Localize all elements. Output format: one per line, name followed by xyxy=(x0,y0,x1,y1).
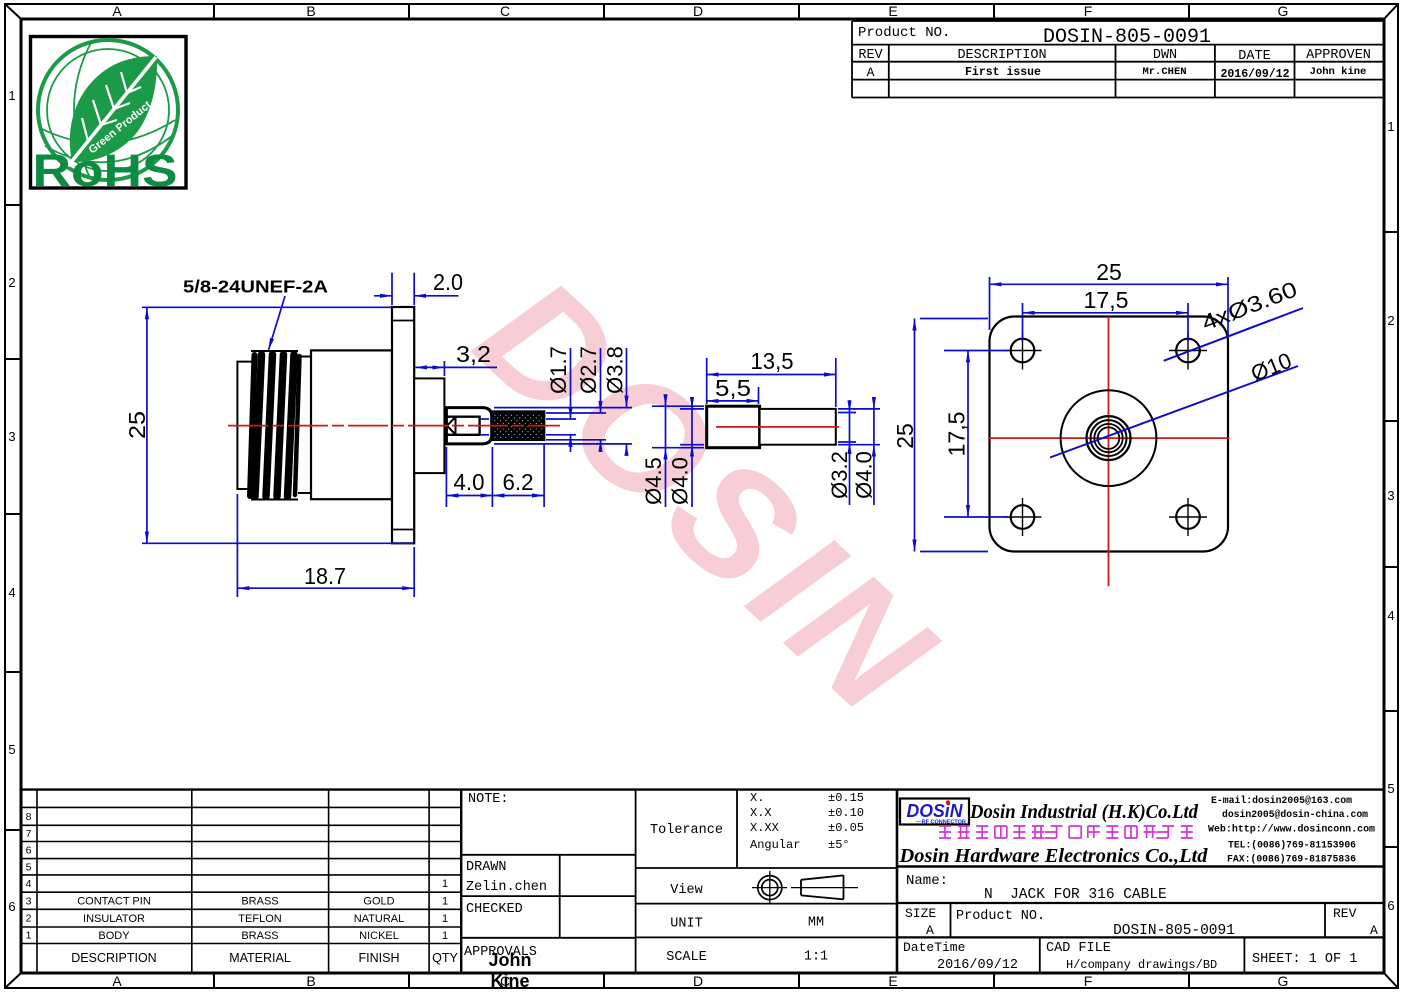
svg-text:CAD FILE: CAD FILE xyxy=(1046,941,1111,956)
svg-text:NOTE:: NOTE: xyxy=(468,792,509,807)
svg-text:6: 6 xyxy=(26,845,32,857)
dim 25 flange left xyxy=(915,319,989,552)
svg-text:Dosin Hardware Electronics Co.: Dosin Hardware Electronics Co.,Ltd xyxy=(899,845,1209,867)
date row xyxy=(903,940,1357,973)
dim dia3.8 xyxy=(494,348,632,452)
svg-text:2016/09/12: 2016/09/12 xyxy=(1220,68,1289,81)
svg-text:3: 3 xyxy=(1387,488,1394,503)
ferrule centerline xyxy=(716,426,839,428)
right band row dividers xyxy=(1384,232,1398,847)
svg-text:17,5: 17,5 xyxy=(944,412,970,457)
BOM row numbers xyxy=(26,811,32,942)
svg-text:A: A xyxy=(867,65,875,80)
svg-text:Web:http://www.dosinconn.com: Web:http://www.dosinconn.com xyxy=(1208,824,1375,836)
flange side view xyxy=(392,307,414,543)
svg-text:A: A xyxy=(1370,923,1378,938)
revision table xyxy=(852,21,1384,98)
svg-text:CHECKED: CHECKED xyxy=(466,902,523,917)
svg-text:DATE: DATE xyxy=(1238,49,1270,64)
mounting hole top-left xyxy=(1004,332,1042,370)
bottom band column dividers xyxy=(214,973,1189,988)
svg-text:±0.05: ±0.05 xyxy=(828,821,864,835)
dim 2.0 xyxy=(374,273,459,305)
svg-text:1: 1 xyxy=(8,88,15,103)
svg-text:RoHS: RoHS xyxy=(33,145,178,196)
svg-text:1:1: 1:1 xyxy=(804,950,828,965)
svg-text:H/company drawings/BD: H/company drawings/BD xyxy=(1066,958,1217,972)
svg-text:First issue: First issue xyxy=(965,66,1041,79)
svg-text:TEL:(0086)769-81153906: TEL:(0086)769-81153906 xyxy=(1228,840,1356,852)
svg-text:SIZE: SIZE xyxy=(905,906,936,921)
unit and scale values xyxy=(804,916,828,965)
svg-text:—RF CONNECTOR: —RF CONNECTOR xyxy=(916,820,966,826)
svg-text:25: 25 xyxy=(892,423,918,449)
tolerance block labels xyxy=(650,823,723,965)
svg-text:4: 4 xyxy=(26,878,32,890)
svg-text:2.0: 2.0 xyxy=(433,269,463,295)
dim 13,5 xyxy=(707,358,836,407)
svg-text:6.2: 6.2 xyxy=(503,469,534,495)
svg-text:D: D xyxy=(693,973,703,989)
leader dia10 xyxy=(1050,366,1298,458)
dim 3,2 xyxy=(415,361,497,376)
knurl sleeve xyxy=(492,412,544,440)
company name chinese xyxy=(939,826,1193,838)
dim dia1.7 xyxy=(481,348,576,452)
svg-text:Ø1.7: Ø1.7 xyxy=(546,346,571,394)
thread xyxy=(250,351,300,500)
svg-text:E: E xyxy=(888,973,897,989)
center interface circles xyxy=(1061,390,1157,486)
svg-text:GOLD: GOLD xyxy=(363,896,394,908)
svg-text:±5°: ±5° xyxy=(828,838,850,852)
contact info xyxy=(1208,795,1375,866)
svg-text:A: A xyxy=(926,923,934,938)
mounting hole bottom-left xyxy=(1004,498,1042,536)
svg-text:18.7: 18.7 xyxy=(304,563,346,589)
svg-text:DESCRIPTION: DESCRIPTION xyxy=(71,951,156,965)
connector body xyxy=(311,350,392,499)
top band column letters xyxy=(112,3,1288,19)
approver signature John Kine xyxy=(489,950,532,991)
svg-text:X.: X. xyxy=(750,791,764,805)
svg-text:17,5: 17,5 xyxy=(1084,287,1129,313)
svg-text:C: C xyxy=(500,3,510,19)
svg-text:3: 3 xyxy=(26,895,32,907)
svg-text:Product NO.: Product NO. xyxy=(858,25,950,41)
right band row numbers xyxy=(1387,119,1394,913)
svg-text:BRASS: BRASS xyxy=(241,930,278,942)
svg-text:DRAWN: DRAWN xyxy=(466,860,507,875)
svg-text:Ø4.5: Ø4.5 xyxy=(641,457,666,505)
svg-text:X.X: X.X xyxy=(750,806,772,820)
flange crosshair xyxy=(988,317,1230,587)
svg-text:Mr.CHEN: Mr.CHEN xyxy=(1142,66,1186,78)
svg-text:A: A xyxy=(112,973,122,989)
dim dia3.2 xyxy=(838,400,856,505)
svg-text:Ø2.7: Ø2.7 xyxy=(576,346,601,394)
svg-text:John kine: John kine xyxy=(1310,66,1367,78)
svg-text:Ø4.0: Ø4.0 xyxy=(852,451,877,499)
svg-text:1: 1 xyxy=(442,878,448,890)
mounting hole bottom-right xyxy=(1169,498,1207,536)
svg-text:APPROVEN: APPROVEN xyxy=(1306,48,1371,63)
side view centerline xyxy=(228,425,560,427)
svg-text:Tolerance: Tolerance xyxy=(650,823,723,838)
BOM rows text xyxy=(77,878,448,942)
svg-text:±0.10: ±0.10 xyxy=(828,806,864,820)
svg-text:BRASS: BRASS xyxy=(241,896,278,908)
svg-text:NATURAL: NATURAL xyxy=(354,913,405,925)
svg-text:25: 25 xyxy=(1096,259,1122,285)
svg-text:13,5: 13,5 xyxy=(751,348,794,374)
svg-text:Ø3.8: Ø3.8 xyxy=(603,346,628,394)
dim dia4.5 xyxy=(652,398,704,507)
svg-text:B: B xyxy=(306,3,315,19)
svg-text:dosin2005@dosin-china.com: dosin2005@dosin-china.com xyxy=(1222,809,1368,821)
svg-text:G: G xyxy=(1278,973,1289,989)
svg-text:BODY: BODY xyxy=(98,930,130,942)
svg-text:X.XX: X.XX xyxy=(750,821,779,835)
thread neck xyxy=(298,357,311,494)
svg-text:G: G xyxy=(1278,3,1289,19)
svg-text:MATERIAL: MATERIAL xyxy=(229,951,291,965)
svg-text:Zelin.chen: Zelin.chen xyxy=(466,880,547,895)
svg-text:3,2: 3,2 xyxy=(456,341,491,367)
svg-text:Ø4.0: Ø4.0 xyxy=(668,457,693,505)
svg-text:DOSIN-805-0091: DOSIN-805-0091 xyxy=(1113,923,1235,939)
svg-text:4.0: 4.0 xyxy=(454,469,485,495)
svg-text:DOSiN: DOSiN xyxy=(907,801,964,821)
svg-text:1: 1 xyxy=(442,896,448,908)
svg-text:Angular: Angular xyxy=(750,838,800,852)
dim dia2.7 xyxy=(546,348,606,452)
svg-text:Ø3.2: Ø3.2 xyxy=(827,451,852,499)
svg-text:E: E xyxy=(888,3,897,19)
title block lines xyxy=(897,867,1384,974)
note and signature block lines xyxy=(461,790,635,973)
dim 5,5 xyxy=(707,387,759,404)
ferrule sleeve xyxy=(760,409,836,445)
svg-text:2: 2 xyxy=(26,913,32,925)
note and signature texts xyxy=(464,792,547,960)
svg-text:FAX:(0086)769-81875836: FAX:(0086)769-81875836 xyxy=(1227,854,1356,866)
svg-text:DESCRIPTION: DESCRIPTION xyxy=(957,48,1046,63)
svg-text:1: 1 xyxy=(26,930,32,942)
dim 17,5 flange left xyxy=(944,351,1008,518)
dim 25 flange top xyxy=(990,277,1229,338)
svg-text:N JACK FOR 316 CABLE: N JACK FOR 316 CABLE xyxy=(984,887,1167,903)
svg-text:View: View xyxy=(670,883,702,898)
svg-text:5: 5 xyxy=(1387,781,1394,796)
top band column dividers xyxy=(214,4,1189,19)
front plate xyxy=(237,362,252,489)
svg-text:DWN: DWN xyxy=(1153,48,1177,63)
svg-text:NICKEL: NICKEL xyxy=(359,930,399,942)
svg-text:A: A xyxy=(112,3,122,19)
svg-text:2: 2 xyxy=(1387,313,1394,328)
svg-text:REV: REV xyxy=(858,48,883,63)
svg-text:4: 4 xyxy=(1387,608,1394,623)
svg-text:4: 4 xyxy=(8,585,15,600)
size row xyxy=(905,906,1378,939)
svg-text:Product NO.: Product NO. xyxy=(956,909,1045,924)
bottom band column letters xyxy=(112,973,1288,989)
svg-text:DOSIN-805-0091: DOSIN-805-0091 xyxy=(1043,26,1211,49)
svg-text:1: 1 xyxy=(1387,119,1394,134)
dim dia4.0 left xyxy=(680,398,704,507)
svg-text:INSULATOR: INSULATOR xyxy=(83,913,145,925)
projection view symbol xyxy=(752,871,858,904)
svg-text:2: 2 xyxy=(8,275,15,290)
tolerance block lines xyxy=(636,790,897,973)
svg-text:MM: MM xyxy=(808,916,824,931)
BOM table lines xyxy=(21,790,1384,973)
dim 5/8-24UNEF-2A xyxy=(183,277,328,351)
solder pot tube xyxy=(446,408,491,444)
svg-text:Kine: Kine xyxy=(490,971,529,991)
svg-text:1: 1 xyxy=(442,913,448,925)
svg-text:SHEET: 1 OF 1: SHEET: 1 OF 1 xyxy=(1252,952,1357,967)
svg-text:FINISH: FINISH xyxy=(359,951,400,965)
svg-text:TEFLON: TEFLON xyxy=(238,913,281,925)
svg-text:UNIT: UNIT xyxy=(670,917,702,932)
dim dia4.0 right xyxy=(838,398,880,505)
left band row dividers xyxy=(5,205,21,830)
flange front view plate xyxy=(990,317,1229,552)
svg-text:QTY: QTY xyxy=(432,951,458,965)
mounting hole top-right xyxy=(1169,332,1207,370)
svg-text:5/8-24UNEF-2A: 5/8-24UNEF-2A xyxy=(183,277,328,297)
svg-text:±0.15: ±0.15 xyxy=(828,791,864,805)
BOM header xyxy=(71,951,458,965)
dim 6.2 xyxy=(492,443,544,507)
svg-text:5: 5 xyxy=(8,742,15,757)
svg-text:5,5: 5,5 xyxy=(715,375,751,401)
svg-text:7: 7 xyxy=(26,828,32,840)
dosin logo xyxy=(900,799,969,826)
ferrule front body xyxy=(707,406,760,448)
svg-text:E-mail:dosin2005@163.com: E-mail:dosin2005@163.com xyxy=(1211,795,1352,807)
svg-text:3: 3 xyxy=(8,429,15,444)
svg-text:REV: REV xyxy=(1333,906,1357,921)
svg-text:DateTime: DateTime xyxy=(903,940,965,955)
RoHS logo xyxy=(31,37,187,197)
dim 25 left side view xyxy=(142,307,413,543)
svg-text:8: 8 xyxy=(26,811,32,823)
svg-text:CONTACT PIN: CONTACT PIN xyxy=(77,896,151,908)
dim 18.7 xyxy=(237,494,414,597)
svg-text:F: F xyxy=(1084,973,1093,989)
tolerance values xyxy=(750,791,864,852)
svg-text:D: D xyxy=(693,3,703,19)
svg-text:6: 6 xyxy=(1387,898,1394,913)
svg-text:25: 25 xyxy=(124,411,150,439)
svg-text:B: B xyxy=(306,973,315,989)
svg-text:SCALE: SCALE xyxy=(666,950,707,965)
svg-text:1: 1 xyxy=(442,930,448,942)
svg-text:John: John xyxy=(489,950,532,970)
dim 4.0 xyxy=(446,447,492,507)
svg-text:5: 5 xyxy=(26,862,32,874)
rear hub xyxy=(414,378,444,473)
svg-text:Name:: Name: xyxy=(906,873,948,889)
svg-text:2016/09/12: 2016/09/12 xyxy=(937,958,1018,973)
dim 17,5 flange top xyxy=(1023,303,1189,341)
left band row numbers xyxy=(8,88,15,914)
svg-text:F: F xyxy=(1084,3,1093,19)
svg-text:Dosin Industrial (H.K)Co.Ltd: Dosin Industrial (H.K)Co.Ltd xyxy=(969,801,1199,823)
svg-text:6: 6 xyxy=(8,899,15,914)
leader 4xdia3.60 xyxy=(1164,308,1303,361)
